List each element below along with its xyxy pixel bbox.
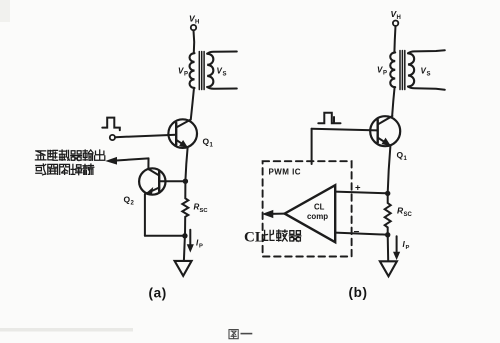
label RSC (a) <box>194 203 209 215</box>
svg-text:S: S <box>223 72 227 78</box>
wire RSC bottom to ground (b) <box>387 235 390 261</box>
svg-text:SC: SC <box>404 212 413 218</box>
transistor Q2 (a) : base bar (right side, mirrored) <box>158 171 160 191</box>
scan smudge top-left corner <box>0 0 10 22</box>
text char 比 <box>264 230 274 240</box>
transformer T1 primary winding VP (a) <box>190 53 195 88</box>
terminal node circle VH (a) <box>191 25 196 30</box>
input terminal node circle (a) <box>110 135 115 140</box>
transistor Q1 (b) : collector stroke <box>378 116 393 125</box>
svg-text:CL: CL <box>314 203 325 212</box>
text char 驅 <box>48 150 58 160</box>
transistor Q1 (b) : base bar <box>377 120 379 143</box>
svg-text:PWM IC: PWM IC <box>269 168 301 177</box>
svg-text:S: S <box>427 72 431 78</box>
text char 端 <box>83 164 94 174</box>
transistor Q2 (a) : emitter stroke with arrow to bottom-left <box>146 188 160 194</box>
transformer T2 core (b) <box>400 51 405 90</box>
text char 較 <box>277 230 288 241</box>
label plus input <box>355 183 361 194</box>
svg-text:CL: CL <box>244 230 265 246</box>
label PWM IC <box>269 168 301 177</box>
wire secondary bottom lead (b) <box>408 87 445 90</box>
text char 器 <box>289 231 300 242</box>
wire arrow to driver output text (a) <box>115 158 149 160</box>
transformer T2 secondary winding VS (b) <box>408 53 414 86</box>
label (b) <box>349 285 368 300</box>
svg-text:comp: comp <box>307 212 328 221</box>
text char 關 <box>48 164 58 174</box>
svg-text:(b): (b) <box>349 285 368 300</box>
wire transformer to Q1 collector (a) <box>191 88 194 120</box>
wire input node to Q1 base (a) <box>115 135 176 138</box>
pulse waveform symbol (a) <box>102 118 120 131</box>
text char 埠 <box>71 164 82 174</box>
text char 閉 <box>60 164 70 174</box>
text char 動 <box>59 150 69 160</box>
transistor Q1 (b) : emitter stroke with arrow <box>378 138 391 146</box>
svg-text:P: P <box>184 72 188 78</box>
transistor Q1 (b) : circle <box>370 116 400 146</box>
label VS (b) <box>421 67 431 78</box>
label IP (a) <box>196 239 203 250</box>
transistor Q2 (a) : circle <box>139 168 165 194</box>
transformer T2 primary winding VP (b) <box>390 52 395 87</box>
text char 或 <box>36 164 46 175</box>
transistor Q2 (a) : collector stroke to top-left <box>148 169 159 176</box>
label Q1 (b) <box>397 150 408 162</box>
terminal node circle VH (b) <box>393 21 398 26</box>
current IP arrow (a) <box>189 230 191 247</box>
label VP (a) <box>178 67 188 78</box>
svg-text:SC: SC <box>200 208 209 214</box>
wire secondary top lead (b) <box>408 50 445 53</box>
svg-text:Q: Q <box>203 137 210 147</box>
svg-text:Q: Q <box>124 195 131 205</box>
junction node dot at RSC top (b) <box>385 191 390 196</box>
pulse waveform symbol (b) <box>318 113 340 123</box>
comparator output arrow pointing left <box>270 213 285 215</box>
text char 至 <box>35 151 46 160</box>
wire Q1 emitter down to RSC node (a) <box>185 148 187 181</box>
comparator U1 triangle CL comp <box>285 185 336 242</box>
resistor RSC (a) <box>182 181 188 236</box>
transistor Q1 (a) : emitter stroke with arrow <box>176 140 187 148</box>
wire down from drive line to Q2 collector (a) <box>147 158 149 169</box>
wire minus input to RSC bottom node (b) <box>335 233 387 235</box>
wire plus input to RSC top node (b) <box>335 192 387 194</box>
junction node dot at Q1 emitter / RSC top (a) <box>183 179 188 184</box>
arrowhead pointing left at text (a) <box>107 158 117 164</box>
label minus input <box>354 227 360 238</box>
wire Q2 base to RSC top node (a) <box>159 180 185 182</box>
text char 輸 <box>83 150 93 160</box>
label CL comp <box>307 203 328 221</box>
caption dash of 图一 <box>241 333 253 335</box>
junction node dot at RSC bottom (a) <box>182 233 187 238</box>
label IP (b) <box>403 240 410 251</box>
current IP arrow (b) <box>396 236 398 254</box>
transistor Q1 (a) : collector stroke <box>176 120 190 128</box>
transformer T1 secondary winding VS (a) <box>207 54 213 87</box>
transistor Q1 (a) : circle <box>168 119 197 148</box>
node VH (b) label <box>391 9 401 21</box>
label RSC (b) <box>397 206 413 219</box>
wire VH to transformer primary (b) <box>394 26 395 52</box>
wire Q1 emitter down to RSC node (b) <box>388 146 391 193</box>
node VH (a) label <box>189 14 199 26</box>
PWM IC dashed box <box>263 161 352 256</box>
wire down from drive line to PWM IC box (b) <box>311 129 313 164</box>
label Q2 (a) <box>124 195 135 207</box>
junction node dot at RSC bottom (b) <box>385 232 390 237</box>
label VS (a) <box>217 67 227 78</box>
label VP (b) <box>377 66 387 77</box>
svg-text:H: H <box>195 20 199 26</box>
wire RSC bottom to ground (a) <box>184 236 185 261</box>
wire VH to transformer primary (a) <box>193 30 196 53</box>
transistor Q1 (a) : base bar <box>175 123 177 145</box>
text char 器 <box>71 151 82 161</box>
resistor RSC (b) <box>385 193 391 234</box>
text char 出 <box>95 150 105 160</box>
label Q1 (a) <box>203 137 214 149</box>
svg-text:Q: Q <box>397 150 404 160</box>
wire pulse line to Q1 base (b) <box>312 129 378 131</box>
wire transformer to Q1 collector (b) <box>392 87 394 115</box>
svg-text:P: P <box>199 244 203 250</box>
svg-text:P: P <box>406 245 410 251</box>
label (a) <box>149 286 167 301</box>
scan smudge bottom-left <box>0 328 133 332</box>
wire secondary top lead (a) <box>207 52 237 54</box>
svg-text:P: P <box>383 71 387 77</box>
svg-text:(a): (a) <box>149 286 167 301</box>
ground symbol (b) <box>380 261 397 276</box>
transformer T1 core (a) <box>199 52 204 90</box>
caption char 图 <box>229 330 238 339</box>
wire secondary bottom lead (a) <box>207 87 237 89</box>
wire Q2 emitter down (a) <box>144 194 146 235</box>
wire Q2 emitter to bottom node (a) <box>145 235 185 237</box>
ground symbol (a) <box>175 261 192 276</box>
